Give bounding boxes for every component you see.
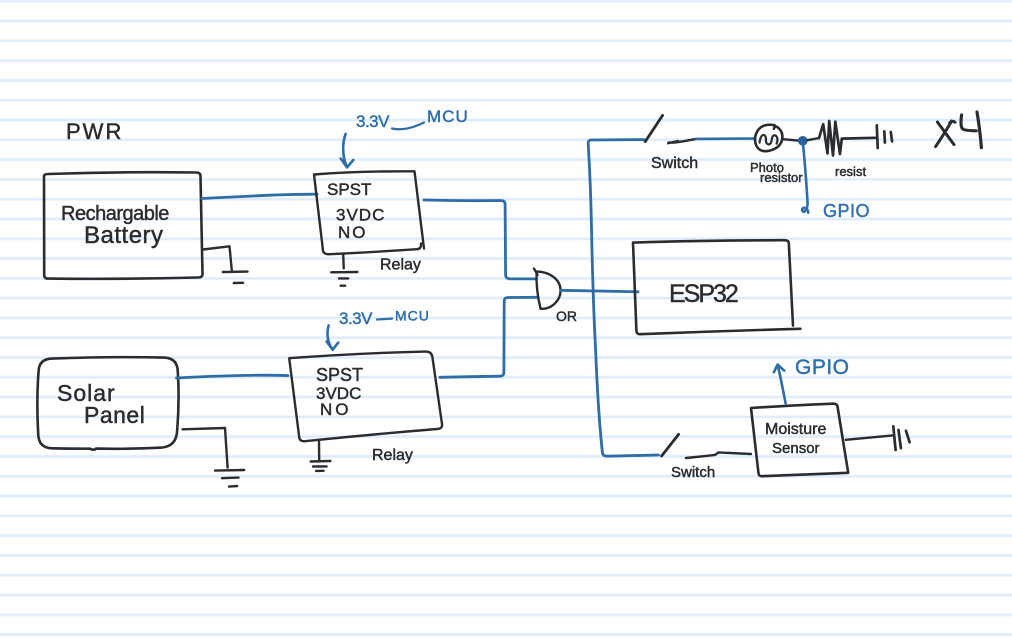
svg-text:SPST: SPST bbox=[327, 180, 371, 199]
svg-text:PWR: PWR bbox=[66, 119, 123, 144]
ground battery B1 bbox=[203, 246, 248, 283]
svg-text:Battery: Battery bbox=[84, 222, 164, 249]
ground relay K1 bbox=[331, 254, 357, 286]
battery symbol BT1 bbox=[877, 125, 892, 148]
solar panel box bbox=[37, 357, 178, 450]
wire switch S1 to photoresistor R1 bbox=[668, 139, 696, 143]
svg-text:Relay: Relay bbox=[372, 447, 413, 464]
battery symbol BT2 bbox=[893, 426, 909, 450]
svg-text:NO: NO bbox=[320, 400, 352, 419]
label X4 bbox=[936, 121, 955, 147]
svg-text:MCU: MCU bbox=[395, 308, 430, 324]
wire relay K2 to OR gate input B bbox=[440, 297, 538, 377]
battery B1 box (Rechargable Battery) bbox=[44, 172, 203, 279]
svg-text:Switch: Switch bbox=[671, 464, 715, 481]
relay K1 box (SPST 3VDC NO) bbox=[314, 171, 424, 254]
wire relay K1 to OR gate input A bbox=[424, 200, 536, 279]
wire moisture sensor to battery BT2 bbox=[846, 436, 892, 440]
svg-text:Switch: Switch bbox=[651, 155, 698, 172]
photoresistor R1 bbox=[755, 125, 782, 151]
ground relay K2 bbox=[311, 442, 331, 471]
esp32 U2 box bbox=[633, 240, 800, 334]
svg-text:3VDC: 3VDC bbox=[336, 206, 385, 225]
wire switch S2 to moisture sensor bbox=[686, 452, 751, 458]
svg-text:GPIO: GPIO bbox=[823, 201, 870, 221]
svg-text:Panel: Panel bbox=[84, 402, 145, 428]
svg-text:3.3V: 3.3V bbox=[356, 112, 390, 131]
node junction dot (GPIO tap) bbox=[798, 136, 808, 146]
svg-text:ESP32: ESP32 bbox=[669, 280, 738, 308]
wire photoresistor to node bbox=[783, 139, 798, 140]
svg-text:Relay: Relay bbox=[380, 257, 421, 274]
switch S2 bbox=[662, 434, 679, 456]
arrow GPIO (moisture sensor) bbox=[774, 365, 786, 404]
ground solar panel bbox=[183, 428, 245, 487]
svg-text:Moisture: Moisture bbox=[765, 421, 826, 438]
wire battery B1 to relay K1 bbox=[202, 194, 317, 198]
svg-text:OR: OR bbox=[556, 308, 577, 324]
wire node to resistor R2 bbox=[808, 138, 819, 140]
wire OR gate output to ESP32 bbox=[561, 290, 638, 292]
arrow GPIO (photoresistor tap) bbox=[802, 146, 808, 213]
arrow to relay K1 coil bbox=[341, 134, 354, 167]
moisture sensor M1 box bbox=[751, 404, 848, 477]
svg-text:Sensor: Sensor bbox=[772, 440, 820, 457]
svg-text:SPST: SPST bbox=[316, 365, 363, 385]
svg-text:resistor: resistor bbox=[760, 170, 803, 185]
switch S1 bbox=[645, 115, 662, 141]
or-gate U1 bbox=[534, 269, 561, 309]
wire solar panel to relay K2 bbox=[177, 375, 289, 378]
svg-text:resist: resist bbox=[835, 164, 866, 179]
svg-text:MCU: MCU bbox=[427, 107, 469, 126]
relay K2 box (SPST 3VDC NO) bbox=[289, 352, 442, 442]
svg-text:3.3V: 3.3V bbox=[339, 309, 373, 328]
resistor R2 bbox=[819, 121, 875, 156]
arrow to relay K2 coil bbox=[327, 326, 339, 350]
node: vertical bus wire bbox=[588, 140, 658, 457]
svg-text:GPIO: GPIO bbox=[795, 356, 850, 379]
svg-text:NO: NO bbox=[338, 223, 368, 242]
